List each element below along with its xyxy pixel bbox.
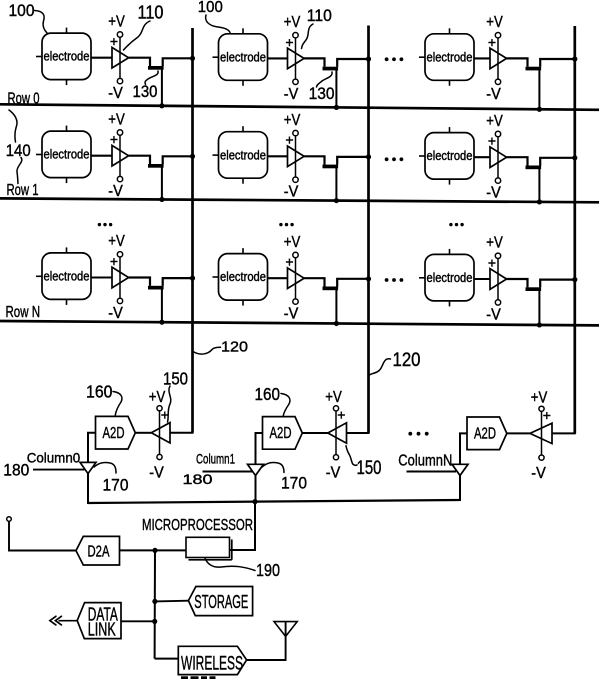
svg-text:electrode: electrode bbox=[220, 148, 266, 162]
svg-text:-V: -V bbox=[108, 183, 123, 200]
svg-text:+V: +V bbox=[108, 111, 125, 128]
svg-text:-V: -V bbox=[284, 184, 299, 201]
svg-text:WIRELESS: WIRELESS bbox=[181, 652, 243, 674]
svg-text:-V: -V bbox=[486, 185, 501, 202]
svg-text:+V: +V bbox=[325, 389, 342, 406]
svg-text:+: + bbox=[285, 254, 293, 270]
svg-text:+V: +V bbox=[531, 389, 548, 406]
svg-text:190: 190 bbox=[256, 560, 280, 580]
svg-text:+: + bbox=[337, 407, 345, 423]
svg-text:STORAGE: STORAGE bbox=[194, 592, 248, 612]
svg-text:+V: +V bbox=[284, 234, 301, 251]
svg-text:electrode: electrode bbox=[44, 270, 90, 284]
svg-text:100: 100 bbox=[9, 2, 35, 20]
svg-text:electrode: electrode bbox=[44, 50, 90, 64]
svg-text:Row N: Row N bbox=[6, 304, 41, 321]
svg-text:A2D: A2D bbox=[103, 425, 125, 442]
svg-text:+V: +V bbox=[486, 235, 503, 252]
svg-text:-V: -V bbox=[486, 86, 501, 103]
svg-text:+V: +V bbox=[486, 14, 503, 31]
svg-text:130: 130 bbox=[309, 84, 335, 103]
svg-text:electrode: electrode bbox=[427, 50, 473, 64]
svg-text:D2A: D2A bbox=[88, 544, 110, 561]
svg-text:+: + bbox=[488, 34, 496, 50]
svg-text:170: 170 bbox=[281, 474, 307, 493]
svg-text:electrode: electrode bbox=[44, 148, 90, 162]
svg-text:+: + bbox=[488, 254, 496, 270]
svg-text:110: 110 bbox=[307, 7, 332, 25]
svg-text:150: 150 bbox=[357, 458, 382, 479]
svg-text:120: 120 bbox=[393, 350, 421, 371]
svg-text:130: 130 bbox=[133, 83, 158, 101]
svg-text:180: 180 bbox=[183, 471, 213, 487]
svg-text:180: 180 bbox=[3, 462, 29, 480]
svg-text:A2D: A2D bbox=[474, 425, 496, 442]
svg-text:-V: -V bbox=[149, 464, 164, 481]
svg-text:160: 160 bbox=[255, 384, 281, 404]
svg-text:-V: -V bbox=[284, 306, 299, 323]
svg-text:+V: +V bbox=[284, 112, 301, 129]
svg-text:MICROPROCESSOR: MICROPROCESSOR bbox=[142, 517, 253, 534]
svg-text:+: + bbox=[543, 407, 551, 423]
svg-text:+: + bbox=[285, 132, 293, 148]
svg-text:150: 150 bbox=[163, 368, 188, 388]
svg-text:+V: +V bbox=[108, 13, 125, 30]
svg-text:electrode: electrode bbox=[427, 271, 473, 285]
svg-text:+: + bbox=[488, 133, 496, 149]
svg-text:-V: -V bbox=[326, 465, 341, 482]
svg-text:120: 120 bbox=[221, 339, 248, 356]
svg-text:-V: -V bbox=[108, 85, 123, 102]
svg-text:electrode: electrode bbox=[220, 50, 266, 64]
svg-text:Row 0: Row 0 bbox=[8, 90, 40, 107]
svg-text:+V: +V bbox=[284, 14, 301, 31]
svg-text:+V: +V bbox=[149, 389, 166, 406]
svg-text:140: 140 bbox=[6, 142, 31, 160]
svg-text:electrode: electrode bbox=[220, 270, 266, 284]
svg-text:-V: -V bbox=[486, 306, 501, 323]
svg-text:A2D: A2D bbox=[270, 425, 292, 442]
svg-text:-V: -V bbox=[284, 86, 299, 103]
svg-text:160: 160 bbox=[86, 382, 113, 402]
svg-text:-V: -V bbox=[531, 465, 546, 482]
svg-text:LINK: LINK bbox=[88, 619, 116, 639]
svg-text:170: 170 bbox=[103, 476, 129, 495]
svg-text:+V: +V bbox=[486, 113, 503, 130]
svg-text:-V: -V bbox=[108, 305, 123, 322]
svg-text:+: + bbox=[110, 33, 118, 49]
svg-text:110: 110 bbox=[138, 3, 164, 23]
svg-text:Row 1: Row 1 bbox=[7, 182, 39, 199]
svg-text:Column0: Column0 bbox=[27, 449, 81, 465]
svg-text:+: + bbox=[285, 34, 293, 50]
svg-text:+: + bbox=[110, 253, 118, 269]
svg-text:Column1: Column1 bbox=[196, 450, 235, 466]
svg-text:electrode: electrode bbox=[427, 149, 473, 163]
svg-text:ColumnN: ColumnN bbox=[398, 452, 452, 469]
svg-text:+: + bbox=[110, 131, 118, 147]
svg-text:100: 100 bbox=[198, 0, 223, 16]
svg-text:+V: +V bbox=[108, 233, 125, 250]
